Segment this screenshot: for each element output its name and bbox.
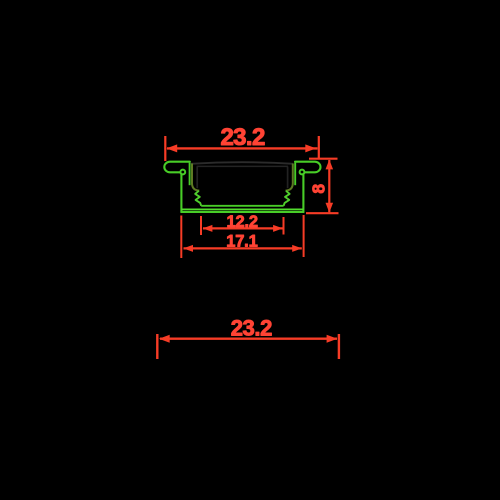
cover right leg bbox=[287, 167, 289, 189]
dim bottom 23.2 right arrow bbox=[327, 335, 338, 343]
dim 17.1 right extension line bbox=[303, 215, 305, 257]
dim top 23.2 right arrow bbox=[305, 144, 316, 152]
profile left flange bbox=[164, 162, 190, 173]
dim 12.2 left arrow bbox=[203, 225, 213, 232]
cover left leg bbox=[196, 167, 198, 189]
dim 17.1 left arrow bbox=[183, 245, 193, 252]
profile bottom mid line bbox=[181, 208, 303, 210]
profile left outer wall bbox=[180, 174, 182, 212]
dim height 8 top extension line bbox=[309, 158, 338, 160]
svg-text:23.2: 23.2 bbox=[231, 316, 272, 341]
dim 17.1 right arrow bbox=[292, 245, 302, 252]
profile right inner wall olive bbox=[286, 164, 293, 191]
dim top 23.2 left arrow bbox=[166, 144, 177, 152]
profile left inner wall olive bbox=[192, 164, 199, 191]
profile right inner wall bright bbox=[294, 163, 296, 186]
svg-text:8: 8 bbox=[309, 184, 329, 194]
svg-text:12.2: 12.2 bbox=[227, 213, 258, 231]
dim 12.2 left extension line bbox=[200, 216, 202, 235]
profile right outer wall bbox=[302, 174, 304, 212]
profile right flange bbox=[295, 162, 320, 173]
profile left bead bbox=[180, 170, 185, 175]
cover inner line bbox=[197, 165, 288, 167]
svg-text:23.2: 23.2 bbox=[220, 124, 265, 151]
dim 12.2 right extension line bbox=[283, 217, 285, 235]
profile right zigzag wall bbox=[284, 191, 290, 206]
profile bottom outer line bbox=[180, 211, 304, 213]
dim 12.2 line bbox=[203, 227, 283, 229]
dim 17.1 left extension line bbox=[180, 216, 182, 259]
profile inner floor bbox=[201, 205, 283, 207]
dim top 23.2 left extension line bbox=[164, 136, 166, 161]
profile left zigzag wall bbox=[195, 191, 201, 206]
dim bottom 23.2 left extension tick bbox=[156, 334, 158, 359]
dim height 8 down arrow bbox=[326, 203, 334, 213]
dim bottom 23.2 line bbox=[160, 338, 337, 340]
dim top 23.2 right extension line bbox=[318, 136, 320, 159]
dim 17.1 line bbox=[184, 247, 302, 249]
dim top 23.2 line bbox=[167, 147, 318, 149]
dim bottom 23.2 left arrow bbox=[159, 335, 170, 343]
dim height 8 bottom extension line bbox=[306, 212, 339, 214]
dim height 8 up arrow bbox=[326, 160, 334, 170]
dim height 8 line bbox=[328, 160, 330, 212]
profile left inner wall bright bbox=[189, 163, 191, 186]
dim bottom 23.2 right extension tick bbox=[338, 334, 340, 359]
svg-text:17.1: 17.1 bbox=[226, 233, 257, 251]
dim 12.2 right arrow bbox=[273, 225, 283, 232]
cover top arc bbox=[191, 162, 293, 164]
profile right bead bbox=[300, 170, 305, 175]
